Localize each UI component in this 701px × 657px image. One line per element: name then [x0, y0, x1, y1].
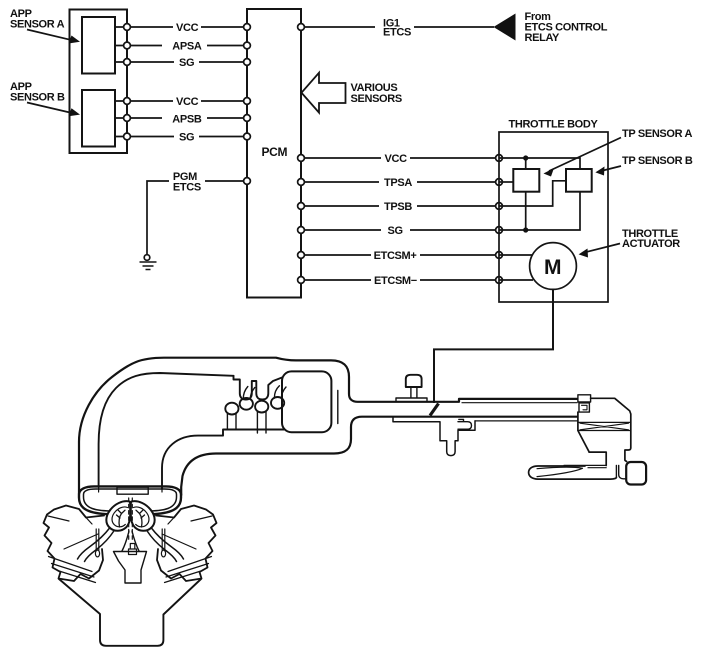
svg-text:VCC: VCC	[176, 96, 199, 108]
TP sensor A square	[513, 169, 539, 192]
port ellipse 4	[271, 397, 284, 409]
internal wiring TPSA	[499, 181, 513, 183]
interior band with cross	[578, 422, 631, 430]
left valve teardrop	[95, 550, 99, 557]
center dashed runner lines	[129, 498, 133, 540]
flange line right of hole	[337, 390, 339, 423]
svg-text:VCC: VCC	[385, 153, 408, 165]
svg-text:ACTUATOR: ACTUATOR	[622, 238, 680, 250]
wire ETCSM+	[301, 254, 499, 256]
svg-text:SG: SG	[179, 132, 194, 144]
internal wiring SG	[499, 192, 580, 230]
right runner tube	[147, 528, 184, 562]
wire motor to throttle body drawing	[434, 289, 553, 403]
snorkel seam dart	[537, 467, 583, 477]
label arrow APP sensor B	[27, 103, 72, 114]
resonator box	[626, 462, 646, 485]
left valve stem	[96, 529, 99, 551]
port ellipse 1	[225, 403, 238, 415]
svg-text:RELAY: RELAY	[525, 32, 561, 44]
snorkel capsule	[529, 466, 617, 479]
internal wiring TPSB step	[499, 181, 566, 206]
circle PCM right IG1	[298, 24, 305, 31]
right bank details	[162, 516, 212, 583]
label arrow TP sensor B	[601, 166, 621, 171]
throttle actuator motor circle	[530, 243, 577, 290]
svg-text:SENSOR A: SENSOR A	[10, 19, 65, 31]
V block to oil pan	[59, 579, 201, 646]
terminal circles PCM left edge	[244, 24, 251, 185]
manifold lower outline	[181, 417, 577, 495]
internal wiring VCC to sensors	[499, 158, 580, 169]
duct inner top line	[462, 402, 577, 404]
svg-text:TPSA: TPSA	[384, 177, 412, 189]
inner bottom ledge	[162, 430, 284, 490]
wire SG (sensor A)	[115, 61, 247, 63]
port stem 4	[274, 386, 286, 399]
right valve teardrop	[161, 550, 165, 557]
label arrow throttle actuator	[585, 244, 620, 253]
wire SG (right)	[301, 229, 499, 231]
svg-text:ETCS: ETCS	[173, 182, 201, 194]
right valve stem	[162, 529, 165, 551]
throttle body lower bracket	[393, 417, 475, 456]
left bank head	[44, 506, 105, 582]
center channel walls	[122, 531, 139, 551]
resonator post	[616, 465, 626, 478]
wire SG (sensor B)	[115, 136, 247, 138]
svg-text:APSB: APSB	[172, 114, 202, 126]
throttle body box	[499, 132, 608, 302]
left kidney runner loop	[106, 501, 130, 531]
right assembly body	[591, 398, 631, 461]
APP sensor B inner box	[82, 90, 115, 147]
svg-text:SG: SG	[388, 225, 403, 237]
APP sensor A inner box	[82, 17, 115, 74]
center wedge	[114, 552, 147, 584]
APP sensor outer box	[70, 10, 128, 154]
svg-text:M: M	[544, 256, 561, 279]
inner hole rounded rect	[282, 371, 331, 432]
ground symbol	[140, 255, 157, 270]
engine plenum cap outer	[79, 486, 181, 514]
wire TPSB	[301, 205, 499, 207]
duct inner bottom line	[475, 420, 577, 422]
port tube 3	[257, 412, 266, 434]
label arrow APP sensor A	[27, 30, 72, 41]
port ellipse 3	[255, 401, 268, 413]
lower bracket nipple	[458, 419, 472, 429]
triangle from ETCS control relay	[494, 14, 516, 41]
wire APSA	[115, 45, 247, 47]
svg-text:ETCSM−: ETCSM−	[374, 275, 417, 287]
svg-text:SG: SG	[179, 57, 194, 69]
svg-text:SENSORS: SENSORS	[351, 93, 402, 105]
svg-text:TPSB: TPSB	[384, 201, 412, 213]
svg-text:ETCS: ETCS	[383, 27, 411, 39]
bracket stem	[396, 387, 427, 401]
right assembly clip squares	[578, 395, 591, 402]
left bank details	[48, 516, 98, 583]
svg-text:PCM: PCM	[262, 145, 288, 159]
plenum inner rect	[117, 487, 148, 494]
injector detail	[129, 544, 137, 555]
right kidney inner line	[134, 507, 149, 527]
svg-text:TP SENSOR A: TP SENSOR A	[622, 128, 693, 140]
inner ledge with hanging hooks	[234, 376, 283, 400]
svg-text:THROTTLE BODY: THROTTLE BODY	[509, 119, 599, 131]
svg-text:VCC: VCC	[176, 22, 199, 34]
right kidney runner loop	[131, 501, 155, 531]
port stem 2	[243, 387, 255, 400]
port ellipse 2	[240, 398, 253, 410]
connection slash	[430, 404, 439, 416]
junction dot SG	[523, 227, 528, 232]
wire IG1/ETCS	[301, 26, 494, 28]
PCM box	[247, 9, 301, 298]
wire VCC (right)	[301, 157, 499, 159]
manifold inner top line	[99, 373, 234, 487]
junction dot VCC	[523, 155, 528, 160]
label arrow TP sensor A	[549, 138, 621, 172]
various sensors hollow arrow	[302, 73, 346, 113]
wire APSB	[115, 117, 247, 119]
circles PCM right edge	[298, 155, 305, 284]
port tube 1	[227, 413, 236, 430]
terminal circles sensor box edge	[124, 24, 131, 140]
svg-text:ETCSM+: ETCSM+	[374, 250, 417, 262]
manifold outer outline top	[79, 358, 577, 494]
engine plenum cap inner	[84, 489, 177, 511]
right bank head	[156, 506, 217, 582]
left kidney branch detail	[117, 510, 126, 527]
right assembly left side	[578, 412, 606, 465]
svg-text:APSA: APSA	[172, 41, 202, 53]
body underside lines	[564, 465, 606, 467]
TP sensor B square	[566, 169, 592, 192]
cap wall notches	[99, 487, 162, 492]
circles throttle body left edge	[496, 155, 503, 284]
throttle cable bracket cap	[406, 375, 422, 387]
wire PGM/ETCS with ground drop	[147, 181, 247, 254]
left kidney inner line	[112, 507, 127, 527]
right kidney branch detail	[136, 510, 145, 527]
wire VCC (sensor B)	[115, 100, 247, 102]
svg-text:TP SENSOR B: TP SENSOR B	[622, 155, 693, 167]
wire VCC (sensor A)	[115, 26, 247, 28]
wire TPSA	[301, 181, 499, 183]
left runner tube	[78, 528, 115, 562]
wire ETCSM-	[301, 279, 499, 281]
svg-text:SENSOR B: SENSOR B	[10, 92, 65, 104]
wires ETCSM to motor	[499, 255, 533, 280]
